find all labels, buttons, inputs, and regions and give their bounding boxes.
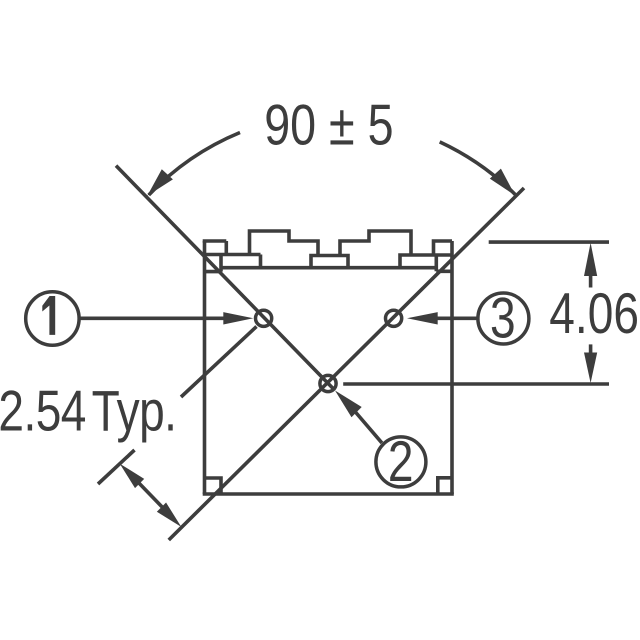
pin 3 circle — [386, 310, 402, 326]
extension line A lower piece — [98, 450, 135, 484]
profile block2 — [340, 231, 411, 256]
profile block1 — [250, 231, 319, 256]
4.06 down arrow stem — [589, 344, 593, 353]
bar1 right edge — [259, 255, 263, 268]
callout circle 3 — [478, 293, 529, 344]
bar1 top line — [203, 253, 261, 257]
svg-text:3: 3 — [490, 287, 516, 351]
diagonal D2 bottom-left to top-right — [169, 188, 524, 540]
arrowhead leader 2 — [335, 391, 362, 418]
4.06 top dimension line — [489, 240, 609, 244]
4.06 bottom dimension line — [343, 382, 609, 386]
2.54 dimension stem — [136, 480, 166, 511]
pin 2 circle — [320, 375, 336, 391]
arrowhead 2.54 upper — [120, 464, 144, 488]
profile bar2 — [311, 256, 348, 268]
arrowhead arc right — [490, 169, 515, 196]
tab2 top-right corner tab — [434, 241, 453, 255]
callout circle 2 — [376, 437, 426, 487]
leader line 1 — [80, 316, 226, 320]
body bottom edge — [203, 492, 454, 496]
svg-text:2.54 Typ.: 2.54 Typ. — [0, 380, 176, 444]
body right edge — [450, 241, 454, 494]
svg-text:90 ± 5: 90 ± 5 — [264, 94, 393, 158]
tab1 top-left corner tab — [203, 241, 227, 255]
arrowhead 4.06 up — [584, 243, 597, 276]
bottom-right corner square — [438, 478, 452, 494]
svg-text:4.06: 4.06 — [549, 282, 639, 346]
90 deg left arc — [149, 133, 240, 196]
leader line 2 — [355, 412, 382, 443]
body top inner line — [223, 266, 437, 270]
arrowhead leader 1 — [223, 312, 253, 324]
arrowhead 2.54 lower — [157, 503, 181, 527]
4.06 up arrow stem — [589, 274, 593, 288]
body left edge — [203, 241, 207, 494]
leader line 3 — [436, 316, 477, 320]
pin 1 circle — [256, 310, 272, 326]
arrowhead 4.06 down — [584, 353, 597, 384]
callout circle 1 — [26, 292, 79, 345]
arrowhead arc left — [147, 169, 173, 196]
90 deg right arc — [440, 142, 516, 195]
profile bar3 — [400, 255, 434, 268]
svg-text:2: 2 — [388, 430, 414, 494]
top-left corner square — [205, 255, 222, 272]
pin label 1 — [42, 296, 55, 335]
bottom-left corner square — [205, 478, 222, 494]
extension line A upper piece — [181, 327, 257, 398]
arrowhead leader 3 — [407, 312, 438, 324]
top-right corner square — [436, 255, 452, 271]
diagonal D1 top-left to center — [116, 166, 335, 391]
